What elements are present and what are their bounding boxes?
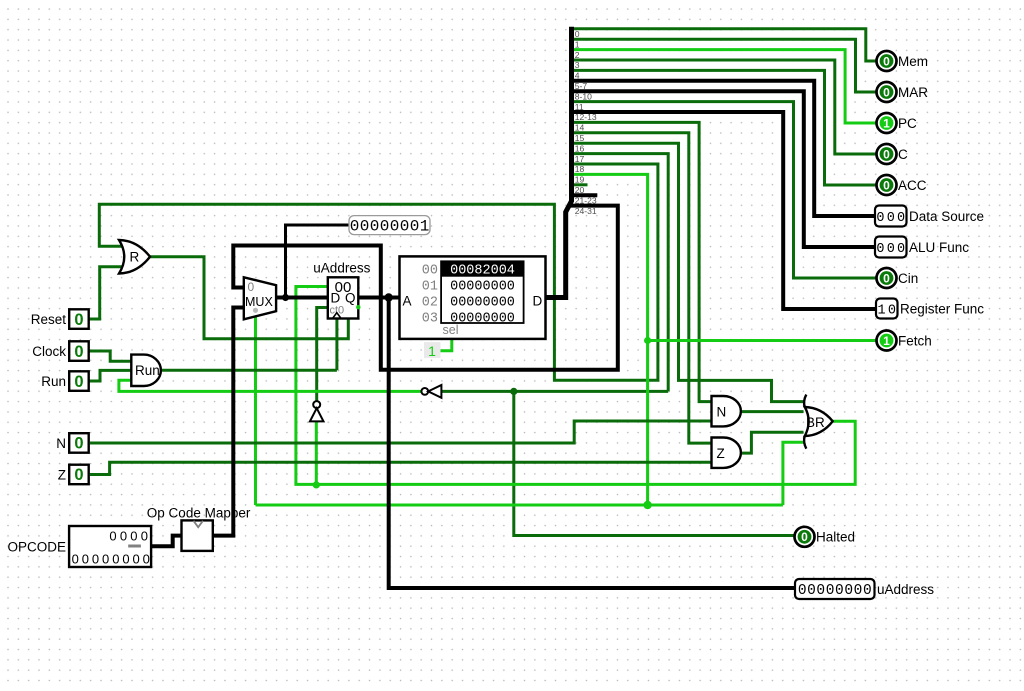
svg-text:0: 0 bbox=[74, 373, 83, 391]
svg-text:000: 000 bbox=[876, 242, 907, 257]
svg-text:Op Code Mapper: Op Code Mapper bbox=[147, 506, 251, 521]
svg-text:0000: 0000 bbox=[109, 529, 151, 544]
svg-text:00000000: 00000000 bbox=[450, 311, 515, 326]
svg-text:03: 03 bbox=[422, 311, 438, 326]
svg-text:20: 20 bbox=[575, 185, 585, 195]
svg-text:ct0: ct0 bbox=[330, 305, 345, 317]
svg-text:Register Func: Register Func bbox=[900, 301, 984, 316]
svg-text:MUX: MUX bbox=[245, 295, 273, 309]
svg-text:Reset: Reset bbox=[31, 312, 67, 327]
svg-text:1: 1 bbox=[883, 116, 890, 130]
svg-text:16: 16 bbox=[575, 143, 585, 153]
svg-text:Mem: Mem bbox=[898, 54, 928, 69]
svg-text:Fetch: Fetch bbox=[898, 333, 932, 348]
svg-text:21-23: 21-23 bbox=[575, 195, 597, 205]
svg-text:Halted: Halted bbox=[816, 530, 855, 545]
svg-text:2: 2 bbox=[575, 50, 580, 60]
svg-text:uAddress: uAddress bbox=[313, 260, 370, 275]
svg-text:C: C bbox=[898, 147, 908, 162]
svg-text:00000000: 00000000 bbox=[450, 279, 515, 294]
svg-text:Data Source: Data Source bbox=[909, 209, 984, 224]
svg-text:02: 02 bbox=[422, 295, 438, 310]
svg-text:PC: PC bbox=[898, 116, 917, 131]
svg-text:00: 00 bbox=[422, 263, 438, 278]
svg-text:N: N bbox=[56, 436, 66, 451]
svg-text:00000000: 00000000 bbox=[450, 295, 515, 310]
svg-text:ACC: ACC bbox=[898, 178, 927, 193]
svg-text:R: R bbox=[130, 250, 140, 265]
svg-text:sel: sel bbox=[443, 323, 459, 337]
svg-text:N: N bbox=[717, 405, 727, 420]
svg-text:12-13: 12-13 bbox=[575, 112, 597, 122]
svg-text:19: 19 bbox=[575, 175, 585, 185]
svg-text:3: 3 bbox=[575, 60, 580, 70]
svg-text:18: 18 bbox=[575, 164, 585, 174]
svg-text:0: 0 bbox=[248, 280, 255, 294]
svg-text:24-31: 24-31 bbox=[575, 206, 597, 216]
svg-text:17: 17 bbox=[575, 154, 585, 164]
svg-text:11: 11 bbox=[575, 102, 584, 112]
svg-text:0: 0 bbox=[883, 178, 890, 192]
svg-text:uAddress: uAddress bbox=[877, 582, 934, 597]
svg-text:0: 0 bbox=[74, 466, 83, 484]
svg-text:ALU Func: ALU Func bbox=[909, 240, 969, 255]
svg-text:Z: Z bbox=[58, 467, 66, 482]
svg-text:1: 1 bbox=[575, 39, 580, 49]
svg-text:0: 0 bbox=[883, 85, 890, 99]
svg-text:Z: Z bbox=[717, 446, 725, 461]
svg-text:10: 10 bbox=[878, 303, 899, 318]
svg-text:D: D bbox=[533, 293, 543, 308]
svg-text:Clock: Clock bbox=[32, 344, 66, 359]
svg-text:D: D bbox=[331, 291, 341, 306]
svg-text:00000000: 00000000 bbox=[72, 552, 153, 567]
svg-text:0: 0 bbox=[74, 435, 83, 453]
svg-text:00000000: 00000000 bbox=[798, 583, 872, 599]
svg-text:00000001: 00000001 bbox=[350, 218, 430, 236]
svg-text:BR: BR bbox=[806, 415, 825, 430]
svg-text:0: 0 bbox=[74, 343, 83, 361]
svg-text:4: 4 bbox=[575, 71, 580, 81]
svg-text:Run: Run bbox=[135, 363, 160, 378]
svg-text:8-10: 8-10 bbox=[575, 91, 592, 101]
svg-text:0: 0 bbox=[74, 311, 83, 329]
svg-text:000: 000 bbox=[876, 211, 907, 226]
svg-text:Run: Run bbox=[41, 374, 66, 389]
svg-text:15: 15 bbox=[575, 133, 585, 143]
svg-text:Q: Q bbox=[345, 291, 356, 306]
svg-text:0: 0 bbox=[883, 147, 890, 161]
svg-text:0: 0 bbox=[883, 271, 890, 285]
svg-text:0: 0 bbox=[575, 29, 580, 39]
svg-text:00082004: 00082004 bbox=[450, 263, 515, 278]
svg-text:01: 01 bbox=[422, 279, 438, 294]
svg-text:1: 1 bbox=[428, 343, 436, 359]
svg-text:OPCODE: OPCODE bbox=[7, 540, 66, 555]
svg-text:Cin: Cin bbox=[898, 271, 918, 286]
svg-text:1: 1 bbox=[883, 334, 890, 348]
svg-text:14: 14 bbox=[575, 123, 585, 133]
svg-text:A: A bbox=[403, 293, 412, 308]
svg-text:0: 0 bbox=[883, 54, 890, 68]
svg-text:5-7: 5-7 bbox=[575, 81, 588, 91]
svg-text:0: 0 bbox=[801, 530, 808, 544]
svg-text:MAR: MAR bbox=[898, 85, 928, 100]
